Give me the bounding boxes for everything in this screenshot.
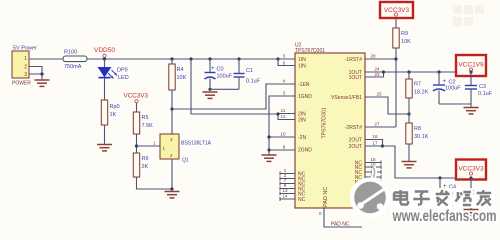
junction pin28 pullup: [394, 57, 397, 60]
op-amp regulator U2 TPS767D301 body: [295, 43, 365, 209]
wire 1GND pin3 to ground rail: [269, 96, 295, 150]
wire 1OUT rail: [384, 71, 472, 73]
svg-text:+: +: [443, 79, 447, 85]
wire divider to Q1 gate pin1: [137, 141, 161, 147]
junction VCC3V3 bottom: [469, 176, 472, 179]
svg-text:R9: R9: [401, 31, 408, 37]
svg-text:www.elecfans.com: www.elecfans.com: [392, 208, 497, 225]
svg-text:18.2K: 18.2K: [414, 90, 429, 96]
svg-text:R100: R100: [64, 50, 77, 56]
wire rail to LED: [104, 59, 106, 68]
wire Q1 source to ground: [171, 159, 173, 189]
wire connector pin1 to fuse: [29, 58, 63, 60]
svg-text:0.1uF: 0.1uF: [478, 91, 493, 97]
svg-text:VCC3V3: VCC3V3: [124, 93, 149, 100]
svg-text:27: 27: [374, 122, 380, 127]
U2 right pin names: [331, 57, 362, 191]
svg-text:-2RST#: -2RST#: [345, 125, 362, 131]
wire enable node to pin4 -1EN: [172, 84, 295, 109]
svg-text:0.1uF: 0.1uF: [246, 79, 261, 85]
svg-text:VDD50: VDD50: [94, 47, 115, 54]
junction divider: [135, 144, 138, 147]
net label VDD50: [94, 47, 115, 57]
ground under U2 left: [262, 155, 277, 161]
junction rail 2IN feed: [189, 57, 192, 60]
resistor R8 30.1K: [406, 123, 429, 161]
junction 1OUT: [382, 70, 385, 73]
svg-text:R6: R6: [142, 156, 149, 162]
svg-text:10K: 10K: [401, 39, 411, 45]
svg-text:R7: R7: [414, 82, 421, 88]
junction R4 Q1 enable node: [170, 107, 173, 110]
svg-text:30.1K: 30.1K: [414, 134, 429, 140]
svg-text:100uF: 100uF: [445, 86, 461, 92]
wire gnd line tail: [268, 150, 270, 155]
resistor R5 7.5K: [133, 112, 153, 134]
wire Rp0 to ground: [104, 125, 106, 144]
resistor R6 2K: [133, 153, 148, 177]
svg-text:2OUT: 2OUT: [349, 144, 362, 150]
watermark faint corner marks: [453, 5, 484, 26]
svg-text:C3: C3: [479, 84, 486, 90]
junction rail C1: [237, 57, 240, 60]
capacitor C5 0.1uF: [465, 178, 493, 209]
svg-text:2IN: 2IN: [298, 118, 306, 124]
wire 1OUT pin24 pin23: [365, 72, 384, 77]
U2 right pin numbers: [370, 54, 382, 187]
wire R9 pullup line to -2RST: [395, 48, 397, 127]
resistor R4 10K: [169, 64, 187, 90]
wire 1IN pin5 pin6 stubs: [278, 59, 295, 66]
svg-text:LED: LED: [118, 75, 129, 81]
ground under C3: [464, 108, 479, 114]
svg-text:-1EN: -1EN: [298, 82, 310, 88]
junction C4: [438, 176, 441, 179]
wire VCC3V3 to R5: [136, 103, 138, 112]
wire -1RST pin28 stub: [365, 58, 396, 60]
wire VSense1 pin25 to divider: [365, 97, 409, 114]
wire PAD NC pin: [319, 208, 362, 228]
svg-text:1IN: 1IN: [298, 57, 306, 63]
LED DP9: [99, 68, 129, 82]
U2 left pin names: [298, 57, 312, 203]
svg-text:12: 12: [280, 114, 286, 119]
svg-text:25: 25: [376, 92, 382, 97]
junction C0 ground: [208, 88, 211, 91]
junction VCC1V9: [469, 70, 472, 73]
svg-text:-1RST#: -1RST#: [345, 57, 362, 63]
resistor Rp0 1K: [101, 100, 119, 125]
svg-text:R4: R4: [177, 67, 184, 73]
wire 2IN pin11 stub: [278, 113, 295, 115]
svg-text:Rp0: Rp0: [110, 104, 120, 110]
svg-text:18: 18: [372, 134, 378, 139]
wire C4 C5 bottom rail: [440, 205, 471, 207]
svg-text:2K: 2K: [142, 164, 149, 170]
capacitor C2 100uF: [433, 72, 461, 104]
junction rail pin5: [276, 57, 279, 60]
svg-text:C1: C1: [246, 68, 253, 74]
svg-text:VCC1V9: VCC1V9: [458, 62, 484, 69]
wire VCC3V3 to R9: [395, 18, 397, 28]
ground under R8: [402, 162, 417, 168]
svg-text:28: 28: [370, 54, 376, 59]
junction 1OUT R7: [407, 70, 410, 73]
svg-text:1: 1: [24, 56, 27, 62]
wire -2EN pin10 stub: [269, 136, 295, 138]
svg-text:1IN: 1IN: [298, 64, 306, 70]
net label VCC3V3 left: [124, 93, 149, 103]
svg-text:3: 3: [24, 72, 27, 78]
svg-text:-2N: -2N: [298, 135, 306, 141]
wire rail to 2IN pins: [191, 59, 295, 120]
junction divider mid: [407, 112, 410, 115]
watermark logo circle: [352, 167, 388, 216]
U2 left NC pin stubs: [280, 172, 295, 202]
svg-text:TPS767D301: TPS767D301: [322, 107, 328, 138]
junction pin10 gnd line: [267, 135, 270, 138]
net label VCC1V9 box: [456, 55, 486, 76]
svg-text:1GND: 1GND: [298, 94, 312, 100]
svg-text:C0: C0: [217, 67, 224, 73]
svg-text:2: 2: [24, 65, 27, 71]
wire C2 C3 bottom rail: [439, 103, 471, 105]
svg-text:17: 17: [372, 141, 378, 146]
junction 1OUT C2: [437, 70, 440, 73]
svg-text:10: 10: [280, 132, 286, 137]
wire connector pin3: [29, 74, 42, 79]
junction Q1 ground: [170, 187, 173, 190]
wire rail to R4: [171, 59, 173, 64]
svg-text:750mA: 750mA: [64, 64, 82, 70]
svg-text:NC: NC: [298, 197, 306, 203]
svg-text:1OUT: 1OUT: [349, 75, 362, 81]
svg-text:R5: R5: [142, 115, 149, 121]
net label VCC3V3 bottom box: [456, 160, 486, 180]
wire 2GND pin8 stub: [269, 149, 295, 151]
fuse R100 750mA: [63, 50, 87, 71]
svg-text:Q1: Q1: [182, 158, 189, 164]
junction rail R4: [170, 57, 173, 60]
ground under Rp0: [97, 145, 112, 151]
svg-text:2GND: 2GND: [298, 148, 312, 154]
ground under connector: [35, 80, 50, 86]
svg-text:11: 11: [281, 108, 286, 113]
junction pin8 gnd: [267, 148, 270, 151]
capacitor C3 0.1uF: [465, 72, 493, 107]
svg-text:1K: 1K: [110, 112, 117, 118]
svg-text:PAD NC: PAD NC: [323, 187, 329, 207]
wire 2OUT to bottom rail: [383, 146, 472, 178]
svg-text:10K: 10K: [177, 75, 187, 81]
wire R6 to ground net: [137, 177, 173, 189]
wire main 5V rail: [87, 58, 278, 60]
net label VCC3V3 top box: [380, 2, 413, 18]
watermark text elecfans url: [392, 208, 497, 225]
wire LED to Rp0: [104, 79, 106, 101]
junction VDD50: [103, 57, 106, 60]
svg-text:7.5K: 7.5K: [142, 123, 154, 129]
wire R4 to Q1 drain: [171, 90, 173, 134]
capacitor C1 0.1uF: [234, 59, 261, 89]
resistor R7 18.2K: [406, 72, 429, 123]
ground under C5: [464, 210, 479, 216]
svg-text:+: +: [211, 66, 215, 72]
wire connector pin2: [29, 67, 42, 75]
junction pin3: [40, 72, 43, 75]
U2 left pin numbers: [280, 54, 288, 199]
svg-text:24: 24: [374, 67, 380, 72]
connector J1 POWER 5V input: [12, 46, 37, 87]
resistor R9 10K: [393, 28, 411, 48]
junction 2IN: [276, 112, 279, 115]
svg-text:POWER: POWER: [12, 81, 31, 87]
svg-text:BSS138LT1A: BSS138LT1A: [181, 141, 212, 147]
transistor Q1 BSS138LT1A: [160, 134, 212, 164]
svg-text:14: 14: [282, 194, 288, 199]
svg-text:23: 23: [374, 72, 380, 77]
svg-text:PAD NC: PAD NC: [331, 222, 350, 228]
ground under C0: [203, 92, 218, 98]
wire C0 to C1 bottom: [210, 88, 239, 90]
svg-text:VSense1/FB1: VSense1/FB1: [331, 95, 362, 101]
svg-text:DP9: DP9: [117, 68, 128, 74]
svg-text:R8: R8: [414, 126, 421, 132]
capacitor C4 100uF: [434, 178, 462, 206]
capacitor C0 100uF: [205, 59, 233, 89]
wire -2RST pin27 stub: [365, 126, 396, 128]
U2 right NC pin stubs: [365, 161, 381, 190]
junction rail C0: [208, 57, 211, 60]
wire R5 to R6: [136, 134, 138, 153]
svg-text:VCC3V3: VCC3V3: [458, 166, 484, 173]
wire 2OUT pins 18 17: [365, 140, 383, 147]
junction 2OUT: [381, 144, 384, 147]
svg-text:100uF: 100uF: [217, 74, 233, 80]
watermark text dianzifashaoyou: [391, 188, 495, 208]
ground under Q1: [165, 192, 180, 198]
svg-text:2OUT: 2OUT: [349, 138, 362, 144]
